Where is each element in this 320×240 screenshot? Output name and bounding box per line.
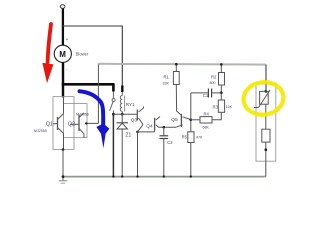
- wire Q1 package to ground bus: [62, 150, 64, 181]
- resistor R2: [219, 73, 225, 86]
- motor M1: [54, 45, 71, 62]
- svg-text:R3: R3: [213, 105, 219, 110]
- svg-text:33K: 33K: [163, 82, 170, 86]
- wire R2 to R3: [220, 85, 222, 100]
- node contact bottom junction: [112, 113, 115, 116]
- svg-text:+: +: [66, 37, 69, 42]
- zener Z1: [117, 114, 129, 129]
- svg-text:RY1: RY1: [126, 102, 135, 107]
- blue annotation arrow: [80, 91, 110, 148]
- capacitor C2: [160, 127, 169, 138]
- wire motor to thick power rail: [62, 62, 64, 85]
- svg-text:Z1: Z1: [126, 133, 132, 139]
- node ground bus left junction: [62, 175, 65, 178]
- node R4 tap junction: [190, 119, 193, 122]
- wire C2 to ground bus: [163, 139, 165, 177]
- node R2 at supply bus: [220, 63, 223, 66]
- transistor Q5: [176, 114, 191, 127]
- svg-text:800: 800: [210, 81, 216, 85]
- wire R6 to ground bus: [265, 142, 267, 177]
- node R1 at supply bus: [175, 63, 178, 66]
- wire supply bus to R1: [175, 64, 177, 71]
- capacitor C1: [208, 89, 211, 98]
- node Q1 emitter bottom: [62, 148, 65, 151]
- svg-text:Q1: Q1: [46, 122, 53, 128]
- node thermistor top: [264, 90, 267, 93]
- transistor Q1 package outline: [53, 97, 74, 150]
- wire supply bus to sensor: [265, 65, 267, 92]
- node supply junction: [62, 25, 64, 27]
- node Q2 collector junction: [85, 122, 87, 124]
- node coil bottom junction: [121, 113, 124, 116]
- wire terminal to supply junction: [62, 8, 64, 45]
- thermistor RT1: [254, 90, 270, 108]
- transistor Q2: [70, 113, 98, 138]
- wire contact to ground bus: [112, 114, 114, 176]
- yellow highlight circle annotation: [242, 80, 286, 117]
- node C2 tap junction: [163, 126, 166, 129]
- sensor enclosure outline: [256, 84, 276, 161]
- wire thermistor to R6: [265, 104, 267, 129]
- wire Q3 emitter to ground bus: [137, 132, 139, 177]
- svg-text:Q4: Q4: [146, 124, 153, 130]
- svg-text:MJ2956: MJ2956: [76, 113, 89, 117]
- svg-text:C1: C1: [203, 93, 209, 98]
- node C2 at ground bus: [163, 175, 165, 177]
- node R6 bottom junction: [264, 148, 267, 151]
- svg-text:68K: 68K: [203, 126, 210, 130]
- terminal J1 supply post: [60, 5, 65, 9]
- wire Q4 to Q5 emitter: [159, 126, 177, 128]
- wire Q3 emitter to Q4: [138, 131, 155, 133]
- transistor Q1: [53, 97, 64, 150]
- node Z1 at ground bus: [121, 175, 123, 177]
- svg-text:Q5: Q5: [171, 117, 178, 123]
- transistor Q3: [137, 107, 143, 132]
- node R2 bottom junction: [220, 91, 223, 94]
- svg-text:Q2: Q2: [68, 122, 75, 128]
- svg-text:R2: R2: [211, 75, 217, 80]
- resistor R3: [218, 100, 224, 112]
- svg-text:10K: 10K: [226, 105, 233, 109]
- wire Q5 collector rail: [190, 93, 192, 132]
- svg-text:C2: C2: [167, 140, 173, 145]
- red annotation arrow: [42, 24, 53, 83]
- wire R4 to collector rail node: [191, 119, 200, 121]
- wire Z1 to ground bus: [121, 129, 123, 177]
- wire C1 right plate to R2 bottom node: [212, 92, 222, 94]
- resistor R5: [188, 132, 194, 143]
- svg-text:R1: R1: [164, 75, 170, 80]
- svg-text:M: M: [59, 50, 66, 59]
- svg-text:MJ2955: MJ2955: [34, 129, 47, 133]
- svg-text:Blower: Blower: [76, 52, 89, 57]
- node Q3 at ground bus: [136, 175, 138, 177]
- wire R3 to R4: [212, 112, 221, 120]
- wire Q2 collector riser to supply bus: [97, 64, 99, 124]
- ground: [59, 181, 67, 183]
- switch S1 relay contact: [110, 92, 116, 115]
- transistor Q2 package outline: [64, 104, 88, 138]
- supply bus net: [98, 63, 266, 66]
- resistor R6 sensor shunt: [262, 129, 270, 142]
- wire rail stub into Q1 package: [62, 84, 64, 97]
- wire C1 left plate to Q5 collector rail: [191, 92, 209, 94]
- resistor R1: [173, 72, 179, 85]
- resistor R4: [200, 117, 212, 123]
- wire thick power rail: [62, 83, 115, 86]
- svg-text:47K: 47K: [196, 136, 203, 140]
- wire supply bus to R2: [220, 64, 222, 72]
- node R5 at ground bus: [190, 175, 192, 177]
- svg-text:R4: R4: [204, 112, 210, 117]
- wire R1 to Q5 base: [176, 85, 181, 116]
- wire contact node to Q3 base: [113, 113, 137, 115]
- wire supply junction to relay coil feed: [63, 26, 122, 86]
- wire rail drop to relay contact: [112, 84, 115, 91]
- svg-text:R5: R5: [182, 135, 188, 140]
- node contact at ground bus: [112, 175, 114, 177]
- transistor Q4: [155, 117, 160, 132]
- ground bus net: [63, 176, 266, 178]
- node Q3 emitter junction: [136, 131, 139, 134]
- wire R5 to ground bus: [190, 143, 192, 177]
- svg-text:Q3: Q3: [131, 118, 138, 124]
- relay coil RY1: [120, 86, 124, 115]
